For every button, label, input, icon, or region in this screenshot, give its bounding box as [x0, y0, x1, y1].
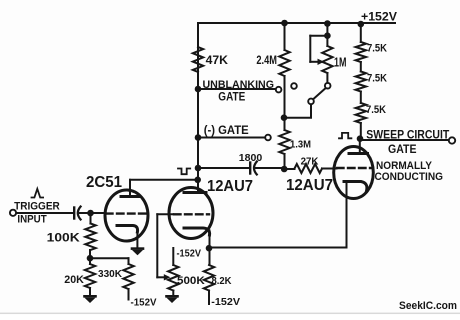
- svg-text:500K: 500K: [177, 275, 205, 287]
- svg-text:(-) GATE: (-) GATE: [204, 125, 249, 137]
- svg-text:2C51: 2C51: [86, 174, 122, 191]
- svg-text:-152V: -152V: [177, 247, 202, 259]
- svg-text:8.2K: 8.2K: [212, 276, 233, 287]
- svg-text:CONDUCTING: CONDUCTING: [375, 171, 444, 183]
- svg-text:-152V: -152V: [131, 297, 157, 309]
- svg-text:2.4M: 2.4M: [256, 55, 277, 67]
- svg-text:GATE: GATE: [218, 92, 245, 104]
- svg-text:1M: 1M: [334, 55, 347, 69]
- svg-text:12AU7: 12AU7: [286, 177, 333, 194]
- svg-text:20K: 20K: [64, 274, 84, 286]
- svg-text:7.5K: 7.5K: [367, 43, 387, 55]
- svg-text:UNBLANKING: UNBLANKING: [203, 79, 275, 91]
- svg-text:12AU7: 12AU7: [207, 178, 253, 195]
- svg-text:SWEEP CIRCUIT: SWEEP CIRCUIT: [366, 129, 449, 141]
- svg-text:SeekIC.com: SeekIC.com: [399, 300, 457, 312]
- svg-text:GATE: GATE: [388, 144, 417, 156]
- svg-text:47K: 47K: [206, 55, 229, 67]
- svg-text:1800: 1800: [239, 152, 263, 164]
- svg-text:27K: 27K: [301, 155, 319, 167]
- svg-text:INPUT: INPUT: [17, 213, 47, 225]
- svg-text:330K: 330K: [98, 268, 122, 280]
- svg-text:1.3M: 1.3M: [290, 139, 311, 151]
- svg-text:-152V: -152V: [211, 296, 240, 308]
- svg-text:7.5K: 7.5K: [366, 104, 386, 116]
- svg-text:+152V: +152V: [361, 9, 397, 23]
- svg-text:TRIGGER: TRIGGER: [14, 200, 60, 212]
- svg-text:7.5K: 7.5K: [367, 72, 387, 84]
- svg-text:100K: 100K: [47, 232, 81, 244]
